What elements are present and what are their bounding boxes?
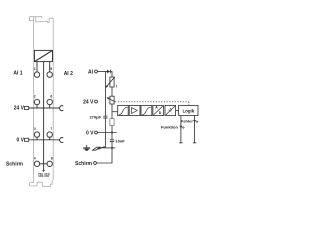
terminal AI internal (95, 70, 98, 73)
wire AI1 stub (36, 62, 38, 72)
junction dot 0V (111, 132, 113, 134)
functional earth symbol (83, 145, 90, 151)
module housing outline (29, 17, 53, 187)
wire (111, 104, 113, 119)
LED line Fehler (193, 116, 196, 143)
svg-text:6: 6 (50, 95, 52, 99)
svg-text:3: 3 (34, 127, 36, 131)
svg-text:A: A (155, 106, 158, 110)
24V blade connector (25, 107, 29, 110)
junction dot earth (111, 147, 113, 149)
resistor R1 (110, 119, 114, 126)
svg-text:4: 4 (34, 156, 36, 160)
svg-text:0 V: 0 V (86, 130, 94, 136)
wire AI input (97, 71, 107, 73)
svg-text:Funktion: Funktion (161, 124, 178, 129)
0V wire (97, 132, 116, 134)
LED line Funktion (179, 116, 182, 143)
rail contact arrow (93, 147, 105, 150)
node bus1 tap (104, 72, 106, 117)
svg-text:7: 7 (50, 127, 52, 131)
wire bus2 lower (96, 142, 112, 163)
svg-text:I: I (116, 84, 117, 89)
svg-text:Fehler: Fehler (181, 118, 193, 123)
A/D converter (153, 105, 164, 115)
0V field supply bus (29, 139, 60, 141)
svg-text:2: 2 (34, 95, 36, 99)
svg-text:AI 2: AI 2 (64, 71, 73, 77)
LED Funktion (180, 126, 185, 128)
terminal 4 (34, 161, 39, 166)
svg-text:8: 8 (51, 156, 53, 160)
wire AI2 stub (49, 62, 51, 72)
terminal 24V internal (95, 100, 98, 103)
24V power jumper contact (60, 106, 64, 111)
wire bus1 lower (104, 118, 106, 148)
0V blade connector (25, 138, 29, 141)
diode D1 (107, 70, 110, 74)
terminal 7 (47, 132, 52, 140)
transducer U1 (35, 50, 53, 61)
24V field supply bus (29, 107, 60, 109)
terminal 6 (47, 99, 52, 108)
svg-text:5: 5 (50, 67, 52, 71)
terminal 1 (34, 72, 39, 77)
wire (111, 87, 113, 96)
svg-text:Logik: Logik (182, 109, 194, 114)
capacitor C2 10nF (110, 140, 114, 142)
shield link wire (40, 163, 47, 165)
svg-text:1: 1 (34, 67, 36, 71)
svg-text:24 V: 24 V (14, 106, 25, 112)
earth junction wire (104, 147, 116, 149)
terminal 3 (34, 132, 39, 140)
amplifier (129, 105, 140, 115)
current limiter I (106, 77, 115, 87)
terminal 5 (47, 72, 52, 77)
wire (111, 126, 113, 140)
filter stage 1 (118, 105, 129, 115)
svg-text:D: D (159, 111, 162, 115)
control dashed line channel 2 (115, 102, 189, 106)
filter stage 2 (141, 105, 152, 115)
svg-text:Schirm: Schirm (75, 161, 93, 167)
svg-text:AI 1: AI 1 (13, 71, 22, 77)
svg-text:000-000: 000-000 (38, 174, 49, 178)
wire to logic (176, 110, 179, 112)
terminal 8 (47, 161, 52, 166)
controlled limiter (107, 96, 115, 104)
capacitor C1 270pF (103, 116, 107, 118)
isolation barrier (165, 105, 176, 115)
functional earth line (module center) (43, 62, 45, 172)
terminal 0V internal (95, 131, 98, 134)
svg-text:24 V: 24 V (83, 99, 94, 105)
svg-text:10nF: 10nF (115, 139, 125, 144)
wire to converter chain (112, 111, 118, 113)
svg-text:270pF: 270pF (89, 115, 101, 120)
terminal Schirm internal (94, 162, 97, 165)
logic block (179, 105, 198, 115)
svg-text:Schirm: Schirm (6, 161, 24, 167)
wire to limiter chain (110, 72, 112, 78)
0V power jumper contact (60, 138, 64, 143)
LED Fehler (193, 120, 198, 122)
svg-text:0 V: 0 V (16, 138, 24, 144)
svg-text:AI: AI (88, 69, 94, 75)
terminal 2 (34, 99, 39, 108)
